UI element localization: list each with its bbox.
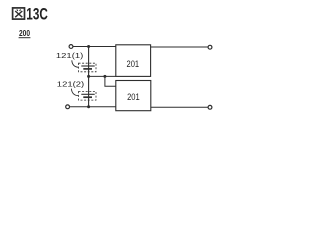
wire top rail left <box>73 46 116 48</box>
dashed box 121(1) <box>79 63 97 72</box>
terminal T2 top-right <box>208 45 212 49</box>
block U1 (201 top) <box>116 45 151 77</box>
wire top rail right <box>151 46 208 48</box>
terminal T1 top-left <box>69 45 73 49</box>
wire bottom rail right <box>151 106 208 108</box>
svg-text:121(2): 121(2) <box>57 79 85 88</box>
svg-text:200: 200 <box>19 29 30 38</box>
title 図13C <box>13 8 25 19</box>
svg-text:121(1): 121(1) <box>56 51 84 60</box>
svg-text:201: 201 <box>127 59 140 69</box>
terminal T3 bottom-left <box>66 105 70 109</box>
svg-text:201: 201 <box>127 92 140 102</box>
leader to 121(2) <box>71 89 78 96</box>
battery 121(2) <box>81 94 94 97</box>
dashed box 121(2) <box>79 92 97 101</box>
wire battery string upper (rail to mid junction) <box>88 47 90 77</box>
junction dot mid-right <box>103 75 106 78</box>
junction dot bottom <box>87 105 90 108</box>
wire battery string lower (mid junction to bottom rail) <box>88 76 90 107</box>
wire mid branch horizontal <box>89 75 116 77</box>
leader to 121(1) <box>72 60 79 67</box>
wire mid branch lower (down and right) <box>105 76 116 86</box>
block U2 (201 bottom) <box>116 81 151 111</box>
junction dot mid-left <box>87 75 90 78</box>
terminal T4 bottom-right <box>208 105 212 109</box>
battery 121(1) <box>81 66 94 69</box>
wire bottom rail left <box>70 106 116 108</box>
svg-text:13C: 13C <box>26 6 48 24</box>
junction dot top <box>87 45 90 48</box>
